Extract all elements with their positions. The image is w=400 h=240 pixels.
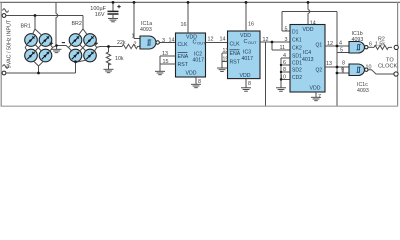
svg-text:4093: 4093 — [357, 88, 369, 94]
svg-text:8: 8 — [283, 67, 286, 73]
svg-text:2: 2 — [134, 42, 137, 48]
svg-text:CD2: CD2 — [292, 75, 302, 81]
svg-text:BR2: BR2 — [72, 21, 82, 27]
svg-text:16V: 16V — [95, 12, 105, 18]
svg-text:CLOCK: CLOCK — [378, 64, 398, 70]
svg-text:4013: 4013 — [302, 57, 314, 63]
svg-text:13: 13 — [223, 48, 229, 54]
svg-text:9VAC / 50Hz INPUT: 9VAC / 50Hz INPUT — [7, 19, 13, 68]
svg-text:11: 11 — [280, 45, 286, 51]
svg-text:1: 1 — [132, 34, 135, 40]
svg-text:13: 13 — [162, 51, 168, 57]
svg-text:CK1: CK1 — [292, 38, 302, 44]
svg-text:Q1: Q1 — [316, 43, 323, 49]
svg-text:SD1: SD1 — [292, 54, 302, 60]
svg-text:SD2: SD2 — [292, 68, 302, 74]
svg-text:4017: 4017 — [242, 56, 254, 62]
svg-text:10: 10 — [366, 64, 372, 70]
svg-text:4: 4 — [339, 40, 342, 46]
svg-text:4: 4 — [283, 53, 286, 59]
svg-text:ENA: ENA — [178, 54, 189, 60]
svg-text:5: 5 — [340, 47, 343, 53]
svg-text:VDD: VDD — [303, 27, 314, 33]
svg-text:RST: RST — [178, 62, 189, 68]
svg-text:CD1: CD1 — [292, 61, 302, 67]
svg-text:VDD: VDD — [186, 71, 197, 77]
svg-text:VDD: VDD — [310, 85, 321, 91]
svg-text:4017: 4017 — [193, 57, 205, 63]
svg-text:15: 15 — [223, 57, 229, 63]
svg-text:VDD: VDD — [240, 73, 251, 79]
svg-text:16: 16 — [248, 21, 254, 27]
svg-text:8: 8 — [342, 61, 345, 67]
svg-text:5: 5 — [285, 27, 288, 33]
svg-text:OUT: OUT — [197, 41, 206, 46]
svg-text:13: 13 — [326, 61, 332, 67]
svg-text:14: 14 — [169, 37, 175, 43]
svg-text:4093: 4093 — [140, 27, 152, 33]
svg-text:10k: 10k — [115, 56, 124, 62]
svg-text:3: 3 — [285, 37, 288, 43]
svg-text:6: 6 — [283, 60, 286, 66]
svg-text:3: 3 — [162, 38, 165, 44]
svg-text:IC3: IC3 — [243, 50, 251, 56]
svg-text:12: 12 — [208, 36, 214, 42]
svg-text:BR1: BR1 — [21, 24, 31, 30]
svg-text:OUT: OUT — [248, 40, 257, 45]
svg-text:14: 14 — [310, 21, 316, 27]
svg-text:12: 12 — [327, 41, 333, 47]
svg-text:VDD: VDD — [240, 33, 251, 39]
svg-text:22k: 22k — [117, 40, 126, 46]
svg-text:1.5k: 1.5k — [375, 41, 385, 47]
svg-text:ENA: ENA — [230, 51, 241, 57]
svg-text:14: 14 — [220, 36, 226, 42]
svg-text:CLK: CLK — [178, 42, 189, 48]
svg-text:15: 15 — [163, 59, 169, 65]
svg-text:9: 9 — [341, 68, 344, 74]
svg-text:CLK: CLK — [230, 41, 241, 47]
svg-text:RST: RST — [230, 59, 241, 65]
svg-text:IC4: IC4 — [303, 50, 311, 56]
svg-text:Q2: Q2 — [316, 68, 323, 74]
svg-text:6: 6 — [369, 42, 372, 48]
svg-text:C: C — [193, 40, 197, 46]
svg-text:16: 16 — [181, 22, 187, 28]
svg-text:C: C — [244, 39, 248, 45]
svg-text:CK2: CK2 — [292, 46, 302, 52]
svg-text:D1: D1 — [292, 30, 299, 36]
svg-text:8: 8 — [248, 81, 251, 87]
